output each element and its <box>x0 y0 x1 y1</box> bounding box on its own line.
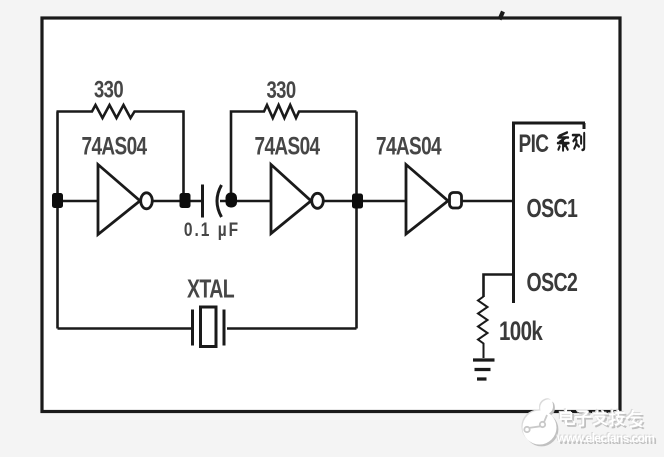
svg-text:74AS04: 74AS04 <box>254 132 320 160</box>
svg-text:PIC: PIC <box>519 129 549 157</box>
svg-text:330: 330 <box>94 75 124 103</box>
svg-text:OSC2: OSC2 <box>527 267 578 296</box>
svg-text:74AS04: 74AS04 <box>376 132 442 160</box>
svg-text:74AS04: 74AS04 <box>81 132 147 160</box>
svg-text:100k: 100k <box>499 316 543 346</box>
svg-text:OSC1: OSC1 <box>527 193 579 222</box>
svg-text:330: 330 <box>266 75 296 103</box>
svg-text:0.1 µF: 0.1 µF <box>184 218 240 240</box>
svg-text:XTAL: XTAL <box>187 274 235 303</box>
